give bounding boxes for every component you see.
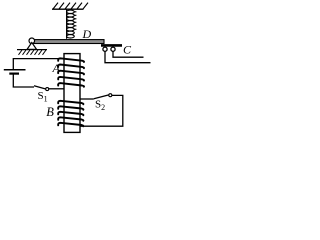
- ceiling line: [52, 8, 84, 10]
- wire coil to switch S2: [80, 98, 94, 100]
- switch S2 contact circle: [109, 94, 112, 97]
- spring: [67, 10, 77, 39]
- switch S2 blade: [94, 95, 109, 99]
- lower winding turns: [58, 101, 83, 127]
- svg-text:C: C: [123, 43, 132, 57]
- upper winding turns: [58, 58, 84, 87]
- wire from right wheel: [113, 51, 144, 57]
- ceiling hatching: [53, 3, 88, 9]
- wire from left wheel: [105, 51, 151, 62]
- svg-text:A: A: [52, 61, 61, 75]
- contact trolley C top bar: [101, 44, 122, 47]
- trolley wheel right: [111, 47, 115, 51]
- pivot triangle: [27, 43, 37, 50]
- battery short plate: [9, 72, 19, 74]
- svg-text:D: D: [82, 27, 92, 41]
- pivot circle: [29, 38, 35, 44]
- wire coil A to battery top: [13, 59, 64, 70]
- wire battery to switch S1: [13, 75, 34, 88]
- pivot ground hatching: [19, 50, 47, 55]
- trolley wheel left: [103, 47, 107, 51]
- wire S1 to coil: [49, 88, 64, 90]
- battery long plate: [4, 69, 26, 71]
- coil core: [64, 54, 80, 133]
- switch S1 blade: [34, 86, 46, 89]
- pivot ground line: [17, 49, 47, 51]
- svg-text:B: B: [46, 105, 54, 119]
- switch S1 contact circle: [46, 88, 49, 91]
- wire S2 loop right and bottom: [80, 95, 123, 126]
- bar D (lever beam): [33, 40, 104, 44]
